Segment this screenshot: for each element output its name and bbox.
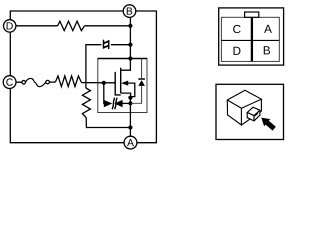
pad circle right	[46, 80, 50, 84]
wire R1 to drain node	[85, 25, 130, 27]
junction source/body	[128, 96, 132, 100]
resistor R1 (drain series)	[58, 21, 85, 30]
pin label D	[234, 47, 241, 55]
junction drain cell	[128, 56, 132, 60]
transistor Q1 gate bar and foot	[115, 72, 121, 95]
package body left face	[227, 100, 241, 125]
pinout table row divider	[221, 39, 279, 41]
die outline box	[98, 59, 147, 113]
zener pair Z2 curved bars	[112, 98, 117, 110]
resistor R3 (gate-source)	[82, 88, 90, 118]
wire left rail D to C to bottom, bottom rail to A	[10, 32, 124, 143]
wire gate tap down to GS zener	[104, 83, 105, 104]
terminal D	[4, 20, 16, 32]
terminal C	[3, 76, 16, 89]
wire GS zener to body diode anode	[131, 86, 142, 103]
pad circle left	[22, 81, 26, 85]
wire right rail B to A	[136, 11, 157, 143]
wire R3 bottom to source node	[86, 118, 130, 128]
wire source node down	[129, 98, 131, 137]
junction drain/clamp	[128, 43, 132, 47]
terminal B	[123, 5, 136, 18]
pinout table column divider	[251, 17, 253, 61]
package body top face	[227, 90, 261, 108]
package tab small box	[247, 107, 260, 121]
wire top rail D to B	[10, 11, 123, 20]
pin label C	[233, 25, 240, 33]
wire gate-drain clamp branch	[86, 45, 130, 88]
wire drain stub	[121, 59, 131, 71]
wire drain top rail of cell	[98, 58, 147, 60]
resistor R2 (gate series)	[55, 76, 81, 87]
package body right face	[241, 99, 261, 125]
wire squiggle bond wire	[26, 78, 46, 86]
location arrow	[261, 118, 276, 131]
pinout panel outer box	[219, 8, 284, 65]
terminal A	[124, 136, 137, 149]
wire C to bond pad	[16, 81, 22, 83]
pinout tab mark	[245, 12, 259, 17]
wire D to resistor R1	[16, 25, 58, 27]
junction source/GS zener	[128, 101, 132, 105]
body diode D1	[138, 59, 145, 86]
pin label A	[264, 25, 272, 33]
junction drain/R1	[128, 24, 132, 28]
wire gate line into cell	[81, 82, 115, 84]
package panel outer box	[216, 84, 284, 139]
junction source bottom	[128, 125, 132, 129]
zener pair Z2 (gate-source) left diode	[104, 100, 112, 107]
pinout table	[221, 17, 279, 61]
suppressor Z1 (gate-drain clamp)	[103, 40, 109, 49]
transistor Q1 body arrow	[121, 81, 135, 97]
pin label B	[264, 46, 270, 54]
junction gate tap	[102, 81, 106, 85]
zener pair Z2 right diode	[114, 100, 130, 107]
wire B vertical drain rail	[129, 17, 131, 58]
wire pad to resistor R2	[49, 81, 55, 83]
transistor Q1 channel bar	[120, 68, 122, 93]
wire source stub	[121, 93, 131, 98]
